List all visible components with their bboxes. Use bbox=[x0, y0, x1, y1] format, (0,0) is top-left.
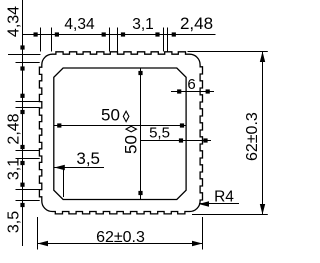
svg-text:50: 50 bbox=[101, 106, 120, 125]
svg-text:3,5: 3,5 bbox=[6, 211, 23, 233]
svg-text:62±0.3: 62±0.3 bbox=[244, 112, 261, 161]
svg-text:4,34: 4,34 bbox=[6, 6, 23, 37]
svg-text:3,5: 3,5 bbox=[76, 149, 100, 168]
svg-text:50: 50 bbox=[122, 135, 141, 154]
svg-text:2,48: 2,48 bbox=[6, 113, 23, 144]
svg-text:62±0.3: 62±0.3 bbox=[96, 229, 145, 246]
svg-text:R4: R4 bbox=[214, 189, 234, 206]
svg-text:4,34: 4,34 bbox=[64, 16, 95, 33]
svg-text:3,1: 3,1 bbox=[6, 158, 23, 180]
svg-text:3,1: 3,1 bbox=[132, 16, 154, 33]
svg-text:6: 6 bbox=[187, 76, 195, 93]
svg-text:5,5: 5,5 bbox=[149, 125, 170, 142]
svg-text:2,48: 2,48 bbox=[180, 14, 213, 33]
